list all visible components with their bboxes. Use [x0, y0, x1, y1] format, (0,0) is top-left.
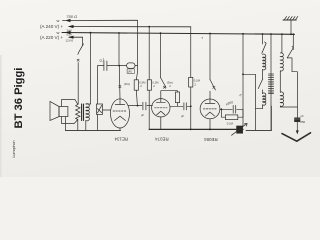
svg-text:250: 250: [300, 120, 305, 124]
svg-text:μF: μF: [300, 114, 304, 118]
svg-text:24V: 24V: [67, 28, 72, 32]
svg-text:(A 220 V) +: (A 220 V) +: [40, 35, 63, 40]
svg-text:750 Ω: 750 Ω: [66, 14, 77, 19]
svg-text:12V,6: 12V,6: [66, 39, 74, 43]
svg-text:RE084: RE084: [204, 137, 218, 142]
svg-text:(A 240 V) +: (A 240 V) +: [40, 24, 63, 29]
svg-text:RE134: RE134: [114, 136, 128, 141]
svg-text:BT 36 Piggi: BT 36 Piggi: [13, 68, 25, 129]
svg-text:(Dm): (Dm): [124, 82, 130, 86]
svg-text:0,1M: 0,1M: [227, 122, 234, 126]
svg-text:RE074: RE074: [155, 137, 169, 142]
svg-text:0,8A: 0,8A: [67, 33, 73, 37]
svg-text:μF: μF: [140, 113, 144, 117]
svg-text:Lumophon: Lumophon: [12, 141, 16, 158]
svg-text:(R): (R): [128, 70, 132, 74]
svg-text:μF: μF: [180, 114, 184, 118]
svg-text:w: w: [57, 18, 60, 23]
